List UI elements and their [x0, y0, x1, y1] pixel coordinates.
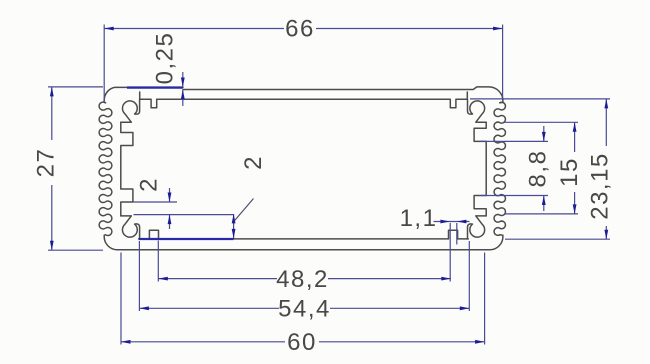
svg-text:54,4: 54,4 — [278, 296, 331, 323]
dimension 48,2 arrows — [158, 277, 168, 281]
dimension 48,2 left extension line — [157, 241, 159, 282]
dimension 0,25 extension overlay — [127, 86, 183, 88]
svg-text:66: 66 — [285, 16, 315, 43]
dimension 15 extension lines — [505, 122, 579, 214]
dimension 54,4 line — [139, 307, 469, 309]
svg-text:60: 60 — [287, 329, 317, 356]
dimension 2 left arrows — [168, 193, 172, 203]
profile bottom outline — [104, 235, 503, 250]
dimension 66 right extension line — [502, 25, 504, 100]
dimension 27 extension lines — [48, 87, 103, 250]
screw boss bottom-left — [121, 216, 140, 239]
dimension 15 line — [574, 122, 576, 214]
dimension 1,1 arrows — [440, 220, 450, 224]
dimension 2 left extension lines — [134, 202, 234, 215]
svg-text:27: 27 — [33, 148, 60, 178]
screw boss bottom-right — [468, 216, 487, 239]
svg-text:2: 2 — [240, 155, 267, 170]
leader line for centre 2 — [234, 199, 254, 222]
dimension 2 centre arrows — [232, 214, 236, 224]
dimension 27 arrows — [50, 87, 54, 97]
screw boss top-left — [121, 99, 140, 122]
right inner wall with PCB tabs — [474, 122, 486, 216]
dimension 8,8 arrow tails — [543, 126, 545, 211]
svg-text:2: 2 — [136, 177, 163, 192]
dimension 23,15 arrows — [604, 99, 608, 109]
svg-text:15: 15 — [556, 157, 583, 187]
dimension 1,1 extension lines — [450, 223, 457, 282]
dimension 23,15 line — [605, 99, 607, 239]
dimension 60 extension lines — [121, 253, 485, 345]
dimension 0,25 upper leader — [182, 72, 184, 87]
dimension 1,1 line — [434, 221, 470, 223]
floor platform navy overlay — [139, 238, 234, 240]
dimension 15 arrows — [573, 122, 577, 132]
floor inner line with ribs — [139, 230, 469, 239]
dimension 27 line — [51, 87, 53, 250]
svg-text:23,15: 23,15 — [587, 152, 614, 220]
inner lid line with slots — [140, 92, 468, 108]
profile outer shell top line — [104, 87, 183, 102]
dimension 0,25 arrows — [181, 78, 185, 88]
svg-text:8,8: 8,8 — [525, 150, 552, 188]
profile top-right corner — [183, 87, 503, 103]
svg-text:1,1: 1,1 — [400, 205, 438, 232]
dimension 2 left arrow tails — [169, 188, 171, 229]
dimension 54,4 arrows — [139, 306, 149, 310]
left fins wave — [99, 102, 112, 236]
dimension 66 left extension line — [103, 25, 105, 104]
right fins wave — [494, 102, 505, 235]
svg-text:48,2: 48,2 — [276, 266, 329, 293]
dimension 0,25 lower leader — [182, 90, 184, 106]
dimension 60 arrows — [121, 340, 131, 344]
dimension 48,2 line — [158, 278, 451, 280]
left inner wall with PCB tabs — [121, 122, 133, 216]
dimension 8,8 extension lines — [481, 141, 548, 195]
dimension 66 line — [104, 28, 502, 30]
dimension 2 centre arrow tail — [233, 214, 235, 238]
dimension 8,8 arrows — [542, 132, 546, 142]
dimension 60 line — [121, 341, 485, 343]
dimension 66 arrows — [104, 27, 114, 31]
dimension 54,4 extension lines — [139, 241, 469, 311]
screw boss top-right — [468, 99, 487, 122]
svg-text:0,25: 0,25 — [152, 32, 179, 85]
dimension 23,15 extension lines — [470, 99, 610, 239]
